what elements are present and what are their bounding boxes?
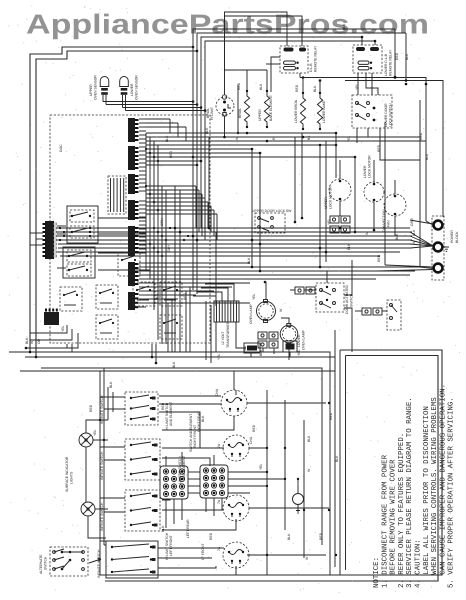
wire: bottom section mesh [159,395,221,397]
lamp surface indicator 1 [79,433,93,447]
svg-text:OVEN SENSOR: OVEN SENSOR [135,75,139,100]
svg-text:YEL: YEL [347,135,351,142]
connector ribbon P4 black comb [128,200,139,220]
svg-text:LOWER: LOWER [297,334,301,347]
wire: upper bus lines [146,132,336,134]
terminal block grid A [160,466,188,499]
terminal block grid B [200,465,228,498]
wire: lower top bus 4 [20,330,335,371]
junction dots lower bus [251,266,254,269]
relay box 96,285 [96,285,118,309]
svg-text:BLK: BLK [161,525,165,532]
svg-text:ALTERNATE: ALTERNATE [39,554,43,574]
svg-text:HI LIMIT: HI LIMIT [210,107,214,120]
junction dots fanout [145,148,147,150]
wire: upper fan rows [146,118,170,120]
wire: section right edge outer [339,350,341,575]
svg-text:UPPER: UPPER [89,84,93,96]
svg-text:YEL: YEL [217,353,221,360]
wire: grid through-wires [165,499,167,528]
svg-text:RED: RED [161,402,165,410]
switch ALTERNATE SWITCH [50,547,88,576]
svg-text:RED: RED [377,254,381,262]
svg-text:LOWER: LOWER [130,83,134,96]
wire: drops to mid bus [251,149,253,267]
svg-text:7A: 7A [217,546,221,551]
connector oven lamp plugs [258,332,278,348]
svg-text:BK: BK [307,135,311,140]
junction dots upper bus [223,136,226,139]
svg-text:W: W [279,308,283,312]
svg-text:LIGHTS: LIGHTS [70,471,74,484]
transformer 12 VOLT TRANSFORMER [214,301,239,322]
switch oven light rocker [387,300,401,330]
wire: door switch wiring [344,260,352,295]
svg-text:REMOTE RELAY: REMOTE RELAY [389,49,393,76]
svg-text:GRY: GRY [167,244,171,252]
relay box 96,315 [96,315,118,339]
svg-text:RED: RED [329,412,333,420]
terminal L1 [434,221,443,230]
wire: ribbon fanout 2 [139,200,146,202]
wire: bank connections [57,225,66,227]
relay D.L.B REMOTE RELAY [280,46,308,73]
relay box 160,282 [160,282,182,306]
terminal N [434,243,443,252]
svg-text:3. SERVICER PLEASE RETURN DIAG: 3. SERVICER PLEASE RETURN DIAGRAM TO RAN… [406,397,414,588]
svg-text:BLK: BLK [347,243,351,250]
wire: fan drops lower [167,303,169,352]
svg-text:BLK: BLK [287,533,291,540]
resistor LOWER BROIL ELEMENT [300,92,305,130]
svg-text:UPPER DOOR LOCK SW: UPPER DOOR LOCK SW [252,209,292,213]
wire: relay1 bottom lead [299,73,301,78]
svg-text:YEL: YEL [252,293,256,300]
connector dashed comb [108,176,126,214]
junction dots rails [192,46,195,49]
wire: relay feed c [374,41,376,45]
POWER BLOCK dashed outline [432,216,444,280]
svg-text:LEFT REAR: LEFT REAR [186,519,190,538]
ground circle symbol [293,494,304,505]
wire: hi-limit leads [225,69,268,71]
ground symbol power block [444,247,449,251]
wire: outer border left step [30,47,193,352]
svg-text:YEL: YEL [259,463,263,470]
svg-text:CAN CAUSE IMPROPER AND DANGERO: CAN CAUSE IMPROPER AND DANGEROUS OPERATI… [439,384,447,588]
svg-text:BLK: BLK [165,135,169,142]
wire: feeds terminal L2 [385,265,433,267]
svg-text:DOC: DOC [59,144,63,152]
wire: relay feed a [225,16,303,88]
element RIGHT REAR [221,390,247,416]
wire: lower top bus 2 [25,357,335,567]
svg-text:UPPER: UPPER [324,197,328,209]
svg-text:BLOCK: BLOCK [455,231,459,243]
switch infinite switch LF (solid) [106,541,158,578]
svg-text:LOWER: LOWER [363,165,367,178]
svg-text:BLK: BLK [25,337,29,344]
svg-text:LABEL ALL WIRES PRIOR TO DISCO: LABEL ALL WIRES PRIOR TO DISCONNECTION [423,406,431,588]
svg-text:BROIL: BROIL [238,108,242,118]
wire: upper lock motor leads [339,160,341,179]
svg-text:LOWER BAKE: LOWER BAKE [322,100,326,123]
lower oven sensor [120,77,129,111]
svg-text:OVEN LAMP: OVEN LAMP [302,329,306,350]
wire: comb to border [30,232,43,234]
svg-text:12 VOLT: 12 VOLT [221,332,225,345]
svg-text:5. VERIFY PROPER OPERATION AFT: 5. VERIFY PROPER OPERATION AFTER SERVICI… [448,397,456,588]
switch UPPER DOOR LOCK SWITCH [255,213,285,233]
relay box 118,252 [118,252,140,276]
resistor LOWER BAKE ELEMENT [317,92,322,130]
connector ribbon P6 black comb [128,262,139,286]
lamp LOWER OVEN LAMP [280,324,298,347]
svg-text:UPPER: UPPER [258,109,262,121]
svg-text:YEL: YEL [327,218,331,225]
relay box 60,287 [60,287,82,311]
junction dots bottom mesh [266,447,268,449]
svg-text:SWITCH: SWITCH [44,556,48,570]
svg-text:CHA: CHA [249,436,253,444]
svg-text:FAN: FAN [387,220,391,227]
svg-text:RED: RED [295,84,299,92]
svg-text:BLK: BLK [109,381,113,388]
svg-text:LOCK SWITCH: LOCK SWITCH [389,103,393,127]
relay bank box A [67,206,98,243]
wire: lamp leads [265,282,267,299]
svg-text:OVEN SENSOR: OVEN SENSOR [94,75,98,100]
wire: top rail 3 [201,37,362,228]
svg-text:BLK: BLK [307,435,311,442]
svg-text:LEFT FRONT: LEFT FRONT [169,535,173,556]
svg-text:YEL: YEL [93,429,97,436]
wire: lower top bus 1 [9,352,330,575]
svg-text:WHEN SERVICING CONTROLS. WIRIN: WHEN SERVICING CONTROLS. WIRING PROBLEMS [431,397,439,588]
svg-text:BLK: BLK [412,229,416,236]
junction dots mid bus [174,227,177,230]
wire: lower fan rows [146,262,250,264]
svg-text:RED: RED [395,52,399,60]
svg-text:CHA: CHA [215,388,219,396]
wire: top rail 4 [205,41,375,232]
motor LOWER LOCK MOTOR [364,182,384,202]
svg-text:RED: RED [252,424,256,432]
connector ribbon P1 black comb [128,118,139,142]
svg-text:TRANSFORMER: TRANSFORMER [226,321,230,348]
svg-text:RED: RED [319,532,323,540]
wire: mid bus lines [55,227,410,229]
connector black blob [44,309,59,326]
connector strip P3 black comb [43,221,57,259]
svg-text:RED: RED [377,144,381,152]
motor CONVECTION FAN [384,194,406,216]
wire: lower element tops [302,78,304,93]
lamp surface indicator 2 [81,502,95,516]
arrow alternate switch [89,558,101,563]
element RIGHT FRONT [223,435,249,461]
wire: sensor leads [103,101,193,103]
relay LOWER D.L.B REMOTE RELAY [353,45,382,73]
svg-text:INFINITE SWITCH: INFINITE SWITCH [100,395,104,424]
svg-text:ORN: ORN [160,218,164,226]
svg-text:2. REFER ONLY TO FEATURES EQUI: 2. REFER ONLY TO FEATURES EQUIPPED. [398,433,406,588]
connector right plugs [362,308,382,315]
wire: lower top bus 3 [41,368,322,545]
wire: element tops [246,70,248,90]
svg-text:BLK: BLK [313,85,317,92]
svg-text:BLK: BLK [247,257,251,264]
svg-text:BEFORE REMOVING WIRE COVER: BEFORE REMOVING WIRE COVER [390,459,398,588]
svg-text:NOTICE:: NOTICE: [373,557,381,588]
wire: convection fan leads [394,180,396,194]
svg-text:D.L.B: D.L.B [309,63,313,72]
svg-text:OR: OR [37,338,41,344]
note NOTICE service text [373,384,456,588]
wire: top rail 2 [197,33,406,51]
junction dots mid bus extra [153,227,155,229]
switch infinite switch RF [125,439,160,480]
lamp OVEN LAMP upper [257,300,276,323]
svg-text:RED: RED [183,292,187,300]
svg-text:LOCK MOTOR: LOCK MOTOR [329,186,333,209]
wire: top center link [225,12,288,70]
svg-text:7A: 7A [217,443,221,448]
connector ribbon P5 black comb [128,226,139,256]
svg-text:LOCK MOTOR: LOCK MOTOR [368,155,372,178]
svg-text:AppliancePartsPros.com: AppliancePartsPros.com [26,9,429,40]
wire: ribbon fanout 1 [139,118,146,120]
svg-text:INFINITE SWITCH: INFINITE SWITCH [100,451,104,480]
wire: left stubs into switches [100,396,125,398]
wire: mid fanout [146,185,196,187]
resistor UPPER BAKE ELEMENT [264,90,269,128]
svg-text:YEL: YEL [61,325,65,332]
relay box 133,282 [133,282,155,306]
svg-text:BLK: BLK [335,455,339,462]
svg-text:W: W [305,556,309,560]
svg-text:REMOTE RELAY: REMOTE RELAY [314,45,318,72]
wire: section right edge inner [345,356,347,571]
wire: transformer leads [193,296,216,301]
svg-text:LOWER BROIL: LOWER BROIL [294,99,298,123]
wire: lower outer border U [100,350,442,575]
wire: right drop 1 [395,29,426,221]
svg-text:BLK: BLK [205,127,209,134]
svg-text:BLK: BLK [201,415,205,422]
svg-text:LF FRONT: LF FRONT [201,543,205,560]
svg-text:CONVECTION: CONVECTION [382,209,386,232]
svg-text:YEL: YEL [243,345,247,352]
junction dots y77-80 [394,76,397,79]
svg-text:INFINITE SWITCH: INFINITE SWITCH [100,502,104,531]
wire: indicator wiring [85,447,87,502]
wire: lower bus lines [150,266,420,268]
svg-text:POWER: POWER [450,230,454,243]
upper oven sensor [100,77,109,105]
connector ribbon P2 black comb [128,146,139,170]
svg-text:1. DISCONNECT RANGE FROM POWER: 1. DISCONNECT RANGE FROM POWER [381,454,389,588]
element LEFT REAR [223,495,249,521]
wire: right drop 3 [419,100,421,267]
svg-text:SURFACE INDICATOR: SURFACE INDICATOR [65,456,69,492]
svg-text:BLK: BLK [405,53,409,60]
svg-text:W: W [30,340,34,344]
svg-text:BLK: BLK [155,293,159,300]
DOC control board dashed box [50,115,210,343]
svg-text:BLK: BLK [342,23,346,30]
connector boxes DOC bottom [244,341,297,353]
wire: relay1 left leads [271,57,280,92]
resistor BROIL ELEMENT [244,90,249,128]
svg-text:DOOR ACTUATED: DOOR ACTUATED [345,285,349,314]
svg-text:YEL: YEL [297,349,301,356]
terminal L2 [434,264,443,273]
switch LOWER DOOR LOCK SWITCH [352,95,392,128]
wire: relay feed b [361,37,363,45]
relay bank box B [63,247,95,278]
wire: relay drops [357,73,359,95]
thermostat UPPER BROIL HI LIMIT [216,88,234,137]
wire: ribbon fanout 3 [139,262,146,264]
wire: top rail 1 [193,29,395,47]
svg-text:YEL: YEL [355,83,359,90]
switch DOOR ACTUATED SWITCH [316,283,344,312]
motor UPPER LOCK MOTOR [329,179,351,201]
wire: feeds terminal L1 [410,220,433,224]
svg-text:4. CAUTION:: 4. CAUTION: [415,539,423,588]
svg-text:BLK: BLK [425,153,429,160]
svg-text:RED: RED [419,132,423,140]
wire: feeds terminal N [410,232,433,246]
svg-text:RED: RED [209,532,213,540]
svg-text:RED: RED [169,150,173,158]
wire: horizontal pair y77-80 [340,77,395,79]
wire: lower inner border U [105,356,438,582]
svg-text:BLK: BLK [259,83,263,90]
switch infinite switch RR [125,392,158,425]
wire: inner border left step [36,51,197,357]
svg-text:BLK: BLK [259,349,263,356]
svg-text:LOWER D.L.B: LOWER D.L.B [384,53,388,76]
svg-text:W: W [307,468,311,472]
junction dots lower boundary [29,351,32,354]
svg-text:OVEN LAMP: OVEN LAMP [249,303,253,324]
connector upper lock motor plug [330,216,350,233]
wire: right drop 2 [406,33,443,217]
svg-text:BLK: BLK [172,361,176,368]
relay box 160,315 [160,315,182,339]
svg-text:RED: RED [89,404,93,412]
wire: center vertical bundle [192,47,194,290]
wire: lower lock motor leads [373,160,375,182]
connector door switch plug [295,287,315,294]
svg-text:BAKE ELEMENT: BAKE ELEMENT [269,95,273,121]
svg-text:GRN: GRN [410,218,414,226]
svg-text:INFINITE SWITCH: INFINITE SWITCH [97,549,101,578]
svg-text:7A: 7A [217,499,221,504]
connector ribbon P3 black comb [128,174,139,194]
svg-text:RED: RED [237,82,241,90]
svg-text:AND ELEMENT: AND ELEMENT [169,402,173,426]
svg-text:BLK: BLK [395,233,399,240]
wire: vertical collectors [145,133,147,270]
wire: DOC bottom drops [30,325,67,333]
switch infinite switch LR [125,490,160,531]
connector small blk lower [128,292,139,310]
wire: door lock drops [356,128,358,143]
element LEFT FRONT [223,542,249,568]
